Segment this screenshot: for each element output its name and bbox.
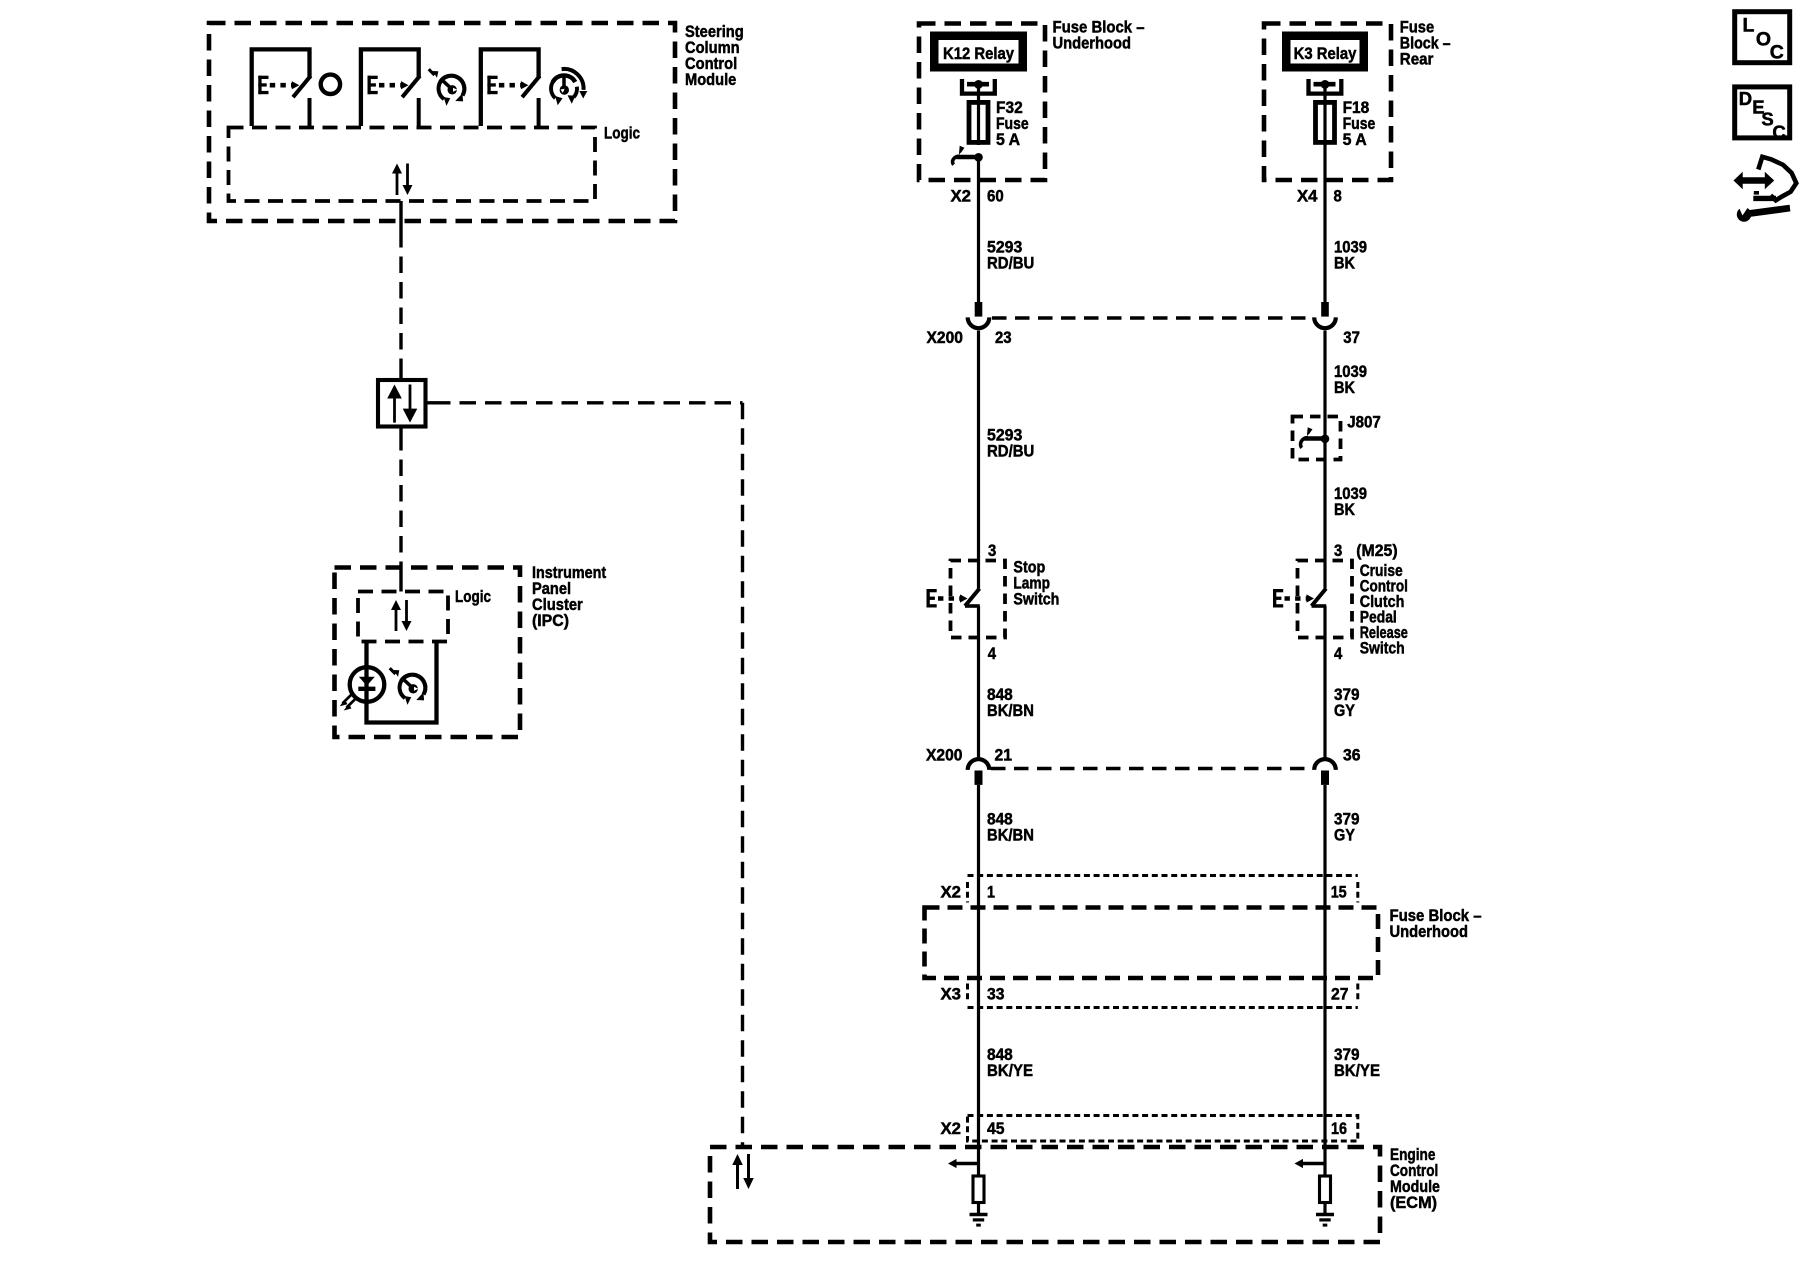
ECM connector row X2 pins 45 16 <box>968 1116 1358 1142</box>
relay K3 <box>1282 32 1368 101</box>
Fuse Block - Rear label <box>1400 18 1451 69</box>
svg-text:GY: GY <box>1334 701 1356 720</box>
top-right LOC legend box <box>1735 12 1790 64</box>
wire 5293 RD/BU label <box>987 238 1034 273</box>
underhood connector row X2 pins 1 15 <box>968 876 1358 903</box>
svg-text:X3: X3 <box>941 985 962 1004</box>
svg-text:X2: X2 <box>951 187 972 206</box>
serial data link box <box>378 380 426 427</box>
wire X200-21 to ECM <box>977 785 980 1164</box>
svg-text:BK: BK <box>1334 378 1356 397</box>
connector X200 pin 36 <box>1314 759 1336 785</box>
svg-text:K3 Relay: K3 Relay <box>1294 44 1357 63</box>
wire SCCM logic to module edge <box>399 201 402 231</box>
pin X4 8 <box>1297 187 1342 206</box>
X200 23 labels <box>927 328 1012 347</box>
svg-text:4: 4 <box>1334 644 1343 663</box>
Engine Control Module box <box>710 1147 1380 1242</box>
fuse F32 label <box>996 98 1029 149</box>
wire stop lamp to X200-21 <box>977 606 980 758</box>
Instrument Panel Cluster box <box>335 568 521 738</box>
svg-text:BK: BK <box>1334 254 1356 273</box>
serial data wire down from SCCM <box>399 231 402 380</box>
svg-text:1: 1 <box>987 883 995 902</box>
wire 379 GY label <box>1334 685 1360 720</box>
svg-text:Switch: Switch <box>1360 639 1405 658</box>
on-off indicator circle <box>321 75 340 94</box>
Steering Column Control Module label <box>685 22 744 89</box>
wire 379 GY label 2 <box>1334 810 1360 845</box>
SCCM Logic box <box>229 128 596 202</box>
pin 36 label <box>1343 746 1361 765</box>
svg-text:O: O <box>1756 29 1771 51</box>
ECM pull-up resistor left <box>973 1164 984 1215</box>
wire 848 BK/YE label <box>987 1045 1033 1080</box>
connector X200 pin 21 <box>968 759 990 785</box>
top-right DESC legend box <box>1735 87 1790 142</box>
Fuse Block - Underhood bottom label <box>1390 906 1482 941</box>
svg-text:8: 8 <box>1334 187 1342 206</box>
wire X200-37 to J807 <box>1323 331 1326 589</box>
svg-text:Switch: Switch <box>1013 590 1059 609</box>
stop lamp switch contacts <box>927 589 980 608</box>
ECM internal ground right <box>1316 1215 1334 1226</box>
fuse F32 <box>969 100 988 145</box>
pin 3 stop lamp switch <box>988 541 996 560</box>
wire K12 to X200 <box>977 157 980 302</box>
wire clutch switch to X200-36 <box>1323 606 1326 758</box>
svg-text:BK/BN: BK/BN <box>987 826 1034 845</box>
svg-text:L: L <box>1743 15 1755 37</box>
cruise on-off switch S1 <box>252 49 311 126</box>
svg-text:Rear: Rear <box>1400 50 1434 69</box>
svg-text:BK/YE: BK/YE <box>1334 1061 1380 1080</box>
pin X2 60 <box>951 187 1004 206</box>
svg-text:27: 27 <box>1331 985 1349 1004</box>
stop lamp switch label <box>1013 558 1059 609</box>
svg-text:33: 33 <box>987 985 1005 1004</box>
wire 5293 RD/BU label 2 <box>987 426 1034 461</box>
svg-text:21: 21 <box>995 746 1013 765</box>
svg-text:37: 37 <box>1343 328 1360 347</box>
ECM serial data arrows <box>732 1154 754 1189</box>
IPC internal circuit loop <box>367 642 437 723</box>
top-right connector-tool icon <box>1734 157 1797 222</box>
svg-text:5 A: 5 A <box>1343 130 1367 149</box>
ECM pull-up resistor right <box>1320 1164 1331 1215</box>
ECM label <box>1390 1145 1440 1212</box>
cruise clutch pedal switch label <box>1360 561 1408 658</box>
row labels X3 33 27 <box>941 985 1349 1004</box>
J807 label <box>1347 413 1381 432</box>
K12 relay contact <box>953 146 983 165</box>
svg-text:BK: BK <box>1334 500 1356 519</box>
svg-text:X200: X200 <box>927 328 963 347</box>
wire 848 BK/BN label <box>987 685 1034 720</box>
svg-text:X2: X2 <box>941 1119 962 1138</box>
svg-text:5 A: 5 A <box>996 130 1020 149</box>
svg-text:Underhood: Underhood <box>1053 34 1132 53</box>
row labels X2 45 16 <box>941 1119 1348 1138</box>
svg-text:X2: X2 <box>941 883 962 902</box>
svg-text:(ECM): (ECM) <box>1390 1193 1437 1212</box>
cruise indicator LED <box>340 667 385 710</box>
svg-text:45: 45 <box>987 1119 1005 1138</box>
wire 1039 BK label 3 <box>1334 484 1367 519</box>
clutch switch contacts <box>1273 589 1326 608</box>
svg-text:3: 3 <box>988 541 996 560</box>
svg-text:J807: J807 <box>1347 413 1381 432</box>
Fuse Block - Underhood box (bottom) <box>925 908 1379 979</box>
wire 1039 BK label <box>1334 238 1367 273</box>
IPC label <box>532 563 606 630</box>
IPC Logic box <box>358 592 448 642</box>
row labels X2 1 15 <box>941 883 1347 902</box>
relay K12 <box>930 32 1027 101</box>
IPC serial data arrows <box>391 600 412 631</box>
svg-text:BK/BN: BK/BN <box>987 701 1034 720</box>
cruise clutch pedal switch box <box>1298 561 1353 638</box>
pin 37 label <box>1343 328 1360 347</box>
wire K3 to X200 <box>1323 145 1326 302</box>
svg-text:Module: Module <box>685 70 736 89</box>
wire 1039 BK label 2 <box>1334 362 1367 397</box>
stop lamp switch box <box>951 561 1006 638</box>
svg-text:Logic: Logic <box>604 124 640 143</box>
connector X200 pin 37 <box>1314 302 1336 328</box>
X200 harness link dashed <box>992 316 1313 319</box>
svg-text:C: C <box>1770 41 1784 63</box>
svg-text:RD/BU: RD/BU <box>987 442 1034 461</box>
connector X200 pin 23 <box>968 302 990 328</box>
Fuse Block - Underhood box (top) <box>919 24 1045 181</box>
IPC Logic label <box>455 587 491 606</box>
svg-text:3: 3 <box>1334 541 1342 560</box>
svg-text:60: 60 <box>987 187 1004 206</box>
wire X200-23 to stop lamp switch <box>977 331 980 589</box>
resume gauge icon <box>551 69 587 105</box>
svg-text:(IPC): (IPC) <box>532 611 569 630</box>
fuse F18 label <box>1343 98 1376 149</box>
svg-text:RD/BU: RD/BU <box>987 254 1034 273</box>
X200 lower harness link dashed <box>991 767 1313 770</box>
serial data wire from link box to ECM <box>426 403 743 1147</box>
svg-text:X4: X4 <box>1297 187 1318 206</box>
Fuse Block - Underhood label <box>1053 18 1145 53</box>
SCCM serial data arrows <box>392 164 413 196</box>
svg-text:(M25): (M25) <box>1356 541 1397 560</box>
svg-text:Underhood: Underhood <box>1390 922 1469 941</box>
svg-text:X200: X200 <box>926 746 962 765</box>
set switch S2 <box>361 49 420 126</box>
pin 4 clutch switch <box>1334 644 1343 663</box>
X200 21 labels <box>926 746 1012 765</box>
IPC speed gauge icon <box>390 668 426 705</box>
wire 848 BK/BN label 2 <box>987 810 1034 845</box>
ECM internal ground left <box>970 1215 988 1226</box>
resume switch S3 <box>481 49 540 126</box>
wire 379 BK/YE label <box>1334 1045 1380 1080</box>
svg-text:23: 23 <box>995 328 1012 347</box>
svg-text:16: 16 <box>1331 1119 1347 1138</box>
svg-text:C: C <box>1772 121 1785 142</box>
underhood connector row X3 pins 33 27 <box>968 984 1358 1008</box>
svg-text:D: D <box>1739 88 1752 109</box>
wire X200-36 to ECM <box>1323 785 1326 1164</box>
svg-text:Logic: Logic <box>455 587 491 606</box>
svg-text:BK/YE: BK/YE <box>987 1061 1033 1080</box>
svg-text:36: 36 <box>1343 746 1361 765</box>
serial data wire from link box to IPC <box>399 427 402 592</box>
Fuse Block - Rear box <box>1264 24 1391 181</box>
Steering Column Control Module box <box>209 23 675 221</box>
ECM stop lamp input <box>948 1159 979 1168</box>
svg-text:15: 15 <box>1331 883 1347 902</box>
Logic label <box>604 124 640 143</box>
fuse F18 <box>1316 100 1335 145</box>
svg-text:GY: GY <box>1334 826 1356 845</box>
svg-text:K12 Relay: K12 Relay <box>943 44 1014 63</box>
splice J807 box <box>1293 417 1341 460</box>
pin 4 stop lamp switch <box>988 644 997 663</box>
pin 3 clutch switch and M25 <box>1334 541 1398 560</box>
svg-text:4: 4 <box>988 644 997 663</box>
set-speed gauge icon <box>429 69 465 106</box>
ECM clutch input <box>1295 1159 1326 1168</box>
